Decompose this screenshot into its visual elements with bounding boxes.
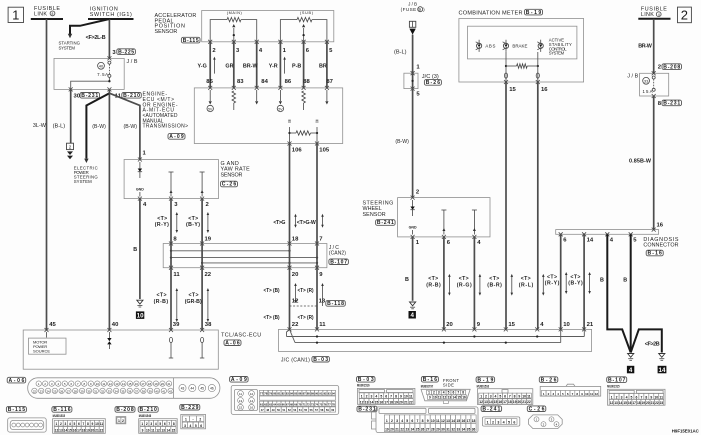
svg-text:MU801515: MU801515 xyxy=(53,414,66,418)
wire B-R meter pin 15 to J/C CAN1 pin 15 xyxy=(505,82,507,329)
wire J/B internal to pin 30 xyxy=(71,77,110,89)
svg-text:14: 14 xyxy=(370,400,374,404)
wire B-W to G and yaw rate sensor pin 1 xyxy=(109,93,139,159)
node pin 5 sensor xyxy=(329,48,333,54)
label wire GR xyxy=(225,63,233,69)
svg-text:61: 61 xyxy=(260,403,264,407)
svg-text:29: 29 xyxy=(81,389,85,393)
node to ELECTRIC POWER STEERING SYSTEM xyxy=(74,159,99,184)
svg-text:13: 13 xyxy=(59,428,63,432)
node pin 22 CAN1 xyxy=(292,322,299,328)
svg-text:SYSTEM: SYSTEM xyxy=(549,51,565,56)
tick CAN2 bottom xyxy=(288,266,292,270)
svg-text:25: 25 xyxy=(416,428,420,432)
connector B-208 label xyxy=(115,407,135,413)
svg-text:23: 23 xyxy=(40,389,44,393)
svg-text:11: 11 xyxy=(102,382,105,386)
connector B-231 pinout xyxy=(376,407,478,433)
wire GR-B CAN2 pin 22 to TCL pin 38 xyxy=(201,268,203,330)
svg-text:41: 41 xyxy=(162,389,166,393)
svg-text:18: 18 xyxy=(637,401,641,405)
svg-text:A-06: A-06 xyxy=(9,378,25,384)
node pin 12 B-118 xyxy=(292,299,299,305)
svg-text:GR: GR xyxy=(225,63,233,69)
ic COMBINATION METER B-19 xyxy=(459,9,543,16)
J/C CAN2 internal bus upper xyxy=(171,250,290,252)
svg-text:12: 12 xyxy=(292,299,299,305)
svg-text:2: 2 xyxy=(485,395,487,399)
svg-text:15: 15 xyxy=(68,428,72,432)
ground steering sensor xyxy=(410,302,416,309)
svg-text:B: B xyxy=(623,278,627,284)
tick J/B33 bottom xyxy=(652,94,656,98)
wire CAN2 through 18-20 xyxy=(289,244,291,268)
svg-text:15: 15 xyxy=(494,400,498,404)
tick J/B exit pin 11 xyxy=(107,87,111,91)
svg-text:27: 27 xyxy=(67,389,71,393)
svg-text:8: 8 xyxy=(462,391,464,395)
svg-text:3: 3 xyxy=(150,422,152,426)
svg-text:22: 22 xyxy=(205,272,212,278)
indicator ACTIVE STABILITY CONTROL SYSTEM lamp xyxy=(537,38,572,56)
tick CAN2 top xyxy=(315,242,319,246)
node pin 105 xyxy=(319,148,330,154)
tick diagnosis entry 16 xyxy=(652,228,656,232)
svg-text:20: 20 xyxy=(446,322,453,328)
tick sensor pin exit xyxy=(302,40,306,44)
svg-text:18: 18 xyxy=(82,428,86,432)
svg-text:38: 38 xyxy=(142,389,146,393)
label J/C (CAN2) B-107 xyxy=(329,245,349,266)
svg-text:6: 6 xyxy=(411,419,413,423)
svg-text:36: 36 xyxy=(472,428,476,432)
svg-text:5: 5 xyxy=(159,422,161,426)
tick CAN1 entry xyxy=(288,327,292,331)
svg-text:10: 10 xyxy=(96,382,100,386)
node pin 84 ECU xyxy=(261,79,268,85)
svg-text:<T>G-W: <T>G-W xyxy=(297,220,316,226)
fuse 40 7.5A xyxy=(108,61,111,64)
svg-text:38: 38 xyxy=(205,322,212,328)
svg-text:15: 15 xyxy=(172,428,176,432)
node pin 2 sensor xyxy=(212,48,216,54)
svg-text:5: 5 xyxy=(406,419,408,423)
arrow twisted meter 15 xyxy=(511,276,513,293)
svg-text:5: 5 xyxy=(499,395,501,399)
svg-text:12: 12 xyxy=(479,400,483,404)
label wire B-Y diag xyxy=(568,274,583,286)
label wire 2B xyxy=(645,341,660,347)
svg-text:24: 24 xyxy=(411,428,415,432)
node pin 10 CAN1 xyxy=(563,322,570,328)
label wire Y-G xyxy=(198,63,207,69)
node pin 16 meter xyxy=(541,87,548,93)
steering wheel sensor box xyxy=(398,198,490,237)
node pin 4 yaw xyxy=(143,202,147,208)
svg-text:(B-Y): (B-Y) xyxy=(568,281,583,287)
svg-text:45: 45 xyxy=(200,387,204,391)
svg-text:<T> (B): <T> (B) xyxy=(264,315,280,321)
svg-text:14: 14 xyxy=(659,367,666,374)
svg-text:11: 11 xyxy=(151,428,155,432)
wire R B-118 pin 13 to J/C CAN1 xyxy=(316,306,318,329)
tick meter exit 16 xyxy=(536,80,540,84)
wire P-B sensor pin 6 to ECU pin 88 xyxy=(303,42,305,88)
ic ENGINE-ECU A-09 xyxy=(143,92,189,140)
svg-text:23: 23 xyxy=(660,401,664,405)
svg-text:43: 43 xyxy=(181,387,185,391)
wire 3L-W fusible link to TCL pin 45 xyxy=(46,19,48,330)
svg-text:12: 12 xyxy=(55,428,59,432)
svg-text:20: 20 xyxy=(292,272,299,278)
connector B-115 pinout xyxy=(8,418,47,432)
TCL internal CAN input 38 xyxy=(201,337,204,342)
tick ECU pin entry xyxy=(232,86,236,90)
svg-text:37: 37 xyxy=(135,389,139,393)
tick steering entry pin2 xyxy=(411,196,415,200)
svg-text:B-26: B-26 xyxy=(541,377,557,383)
svg-text:B-115: B-115 xyxy=(8,407,26,413)
svg-text:1: 1 xyxy=(487,420,489,424)
ECU box A-09 xyxy=(194,88,342,144)
label J/C (CAN1) B-03 xyxy=(281,356,330,363)
node pin 3 sensor xyxy=(236,48,240,54)
svg-text:SWITCH (IG1): SWITCH (IG1) xyxy=(90,12,132,18)
svg-text:14: 14 xyxy=(452,395,456,399)
arrow twisted pair TCL right xyxy=(207,291,209,320)
label wire 2L-B xyxy=(86,35,106,41)
ground yaw sensor xyxy=(137,300,143,307)
node pin 1 yaw sensor xyxy=(143,151,147,157)
label wire 3L-W xyxy=(33,123,47,129)
connector B-116 pinout xyxy=(53,419,106,434)
node page-ref 1 xyxy=(8,7,23,22)
svg-text:33: 33 xyxy=(108,389,112,393)
svg-text:17: 17 xyxy=(384,400,388,404)
node pin 1 sensor xyxy=(283,48,287,54)
svg-text:15A: 15A xyxy=(643,89,653,94)
svg-text:27: 27 xyxy=(426,428,430,432)
label wire B-W (center) xyxy=(92,124,106,130)
wire B-L from J/B pin 30 xyxy=(70,89,72,143)
svg-text:13: 13 xyxy=(115,382,119,386)
node pin 15 CAN1 xyxy=(508,322,515,328)
label wire Y-R xyxy=(269,63,278,69)
connector B-241 label xyxy=(481,406,502,412)
svg-text:3L-W: 3L-W xyxy=(33,123,47,129)
svg-text:45: 45 xyxy=(49,322,56,328)
svg-text:7: 7 xyxy=(390,395,392,399)
svg-text:9: 9 xyxy=(400,395,402,399)
node pin 13 connector B-118 xyxy=(319,299,346,307)
arrow twisted pair right xyxy=(322,216,324,225)
steering internal output 6 xyxy=(443,210,445,235)
svg-text:78: 78 xyxy=(264,392,268,396)
meter internal wires to pins xyxy=(505,52,507,82)
node pin 5 J/C3 xyxy=(416,92,420,98)
tick yaw pin 1 entry xyxy=(138,158,142,162)
svg-text:(R-B): (R-B) xyxy=(154,299,169,305)
svg-text:21: 21 xyxy=(587,322,594,328)
svg-text:15: 15 xyxy=(623,401,627,405)
ground diagnosis 2B xyxy=(659,354,665,361)
steering internal output 4 xyxy=(473,210,475,235)
tick ECU pin entry xyxy=(208,86,212,90)
arrow twisted pair yaw right xyxy=(207,215,209,231)
svg-text:10: 10 xyxy=(522,395,526,399)
tick sensor pin exit xyxy=(232,40,236,44)
svg-text:9: 9 xyxy=(142,428,144,432)
svg-text:CONNECTOR: CONNECTOR xyxy=(643,243,678,249)
svg-text:25: 25 xyxy=(53,389,57,393)
svg-text:BR-W: BR-W xyxy=(243,63,259,69)
svg-text:18: 18 xyxy=(292,236,299,242)
label wire G xyxy=(273,220,285,226)
svg-text:10: 10 xyxy=(563,322,570,328)
svg-text:40: 40 xyxy=(155,389,159,393)
svg-text:46: 46 xyxy=(210,387,214,391)
connector A-06 pinout xyxy=(28,378,220,399)
svg-text:87: 87 xyxy=(326,79,333,85)
wire R-Y yaw pin 3 to J/C CAN2 pin 8 xyxy=(170,199,172,244)
svg-text:(R-L): (R-L) xyxy=(519,283,534,289)
svg-text:26: 26 xyxy=(60,389,64,393)
svg-text:20: 20 xyxy=(161,382,165,386)
tick sensor pin exit xyxy=(208,40,212,44)
node pin 20 CAN1 xyxy=(446,322,453,328)
svg-text:0.85B-W: 0.85B-W xyxy=(629,158,652,164)
node pin 30 connector B-231 xyxy=(74,93,100,100)
svg-text:14: 14 xyxy=(619,401,623,405)
svg-text:11: 11 xyxy=(590,392,594,396)
node pin 2 connector B-208 xyxy=(658,64,682,71)
svg-text:6: 6 xyxy=(78,422,80,426)
svg-text:B: B xyxy=(133,247,137,253)
wire through J/C3 xyxy=(412,73,414,88)
label wire B-W steering xyxy=(395,139,409,145)
svg-text:40: 40 xyxy=(99,64,104,69)
svg-text:12: 12 xyxy=(443,395,447,399)
svg-text:11: 11 xyxy=(319,322,326,328)
svg-text:B-116: B-116 xyxy=(53,407,71,413)
ic TCL/ASC-ECU A-06 box xyxy=(23,330,218,369)
label wire B-L meter xyxy=(394,50,407,56)
svg-text:19: 19 xyxy=(154,382,158,386)
node pin 1 steering xyxy=(416,240,420,246)
svg-text:11: 11 xyxy=(100,422,104,426)
node to STARTING SYSTEM xyxy=(59,34,81,51)
svg-text:B-241: B-241 xyxy=(482,406,500,412)
wire Y-R sensor pin 1 to ECU pin 86 xyxy=(279,42,281,88)
svg-text:13: 13 xyxy=(614,401,618,405)
svg-text:J/C (CAN1): J/C (CAN1) xyxy=(281,357,310,363)
svg-text:16: 16 xyxy=(462,395,466,399)
combination meter inner box xyxy=(468,26,577,59)
svg-text:13: 13 xyxy=(484,400,488,404)
ground diagnosis main xyxy=(628,354,634,361)
svg-text:5: 5 xyxy=(380,395,382,399)
svg-text:(R-B): (R-B) xyxy=(426,283,441,289)
svg-text:3: 3 xyxy=(490,395,492,399)
arrow twisted steering 4 xyxy=(479,276,481,293)
svg-text:MU802797: MU802797 xyxy=(421,385,434,389)
label wire B diag4 xyxy=(600,278,604,284)
svg-text:14: 14 xyxy=(64,428,68,432)
svg-text:5: 5 xyxy=(195,424,197,428)
svg-text:17: 17 xyxy=(503,400,507,404)
connector B-229 pinout xyxy=(181,414,206,428)
tick yaw pin exit xyxy=(138,197,142,201)
svg-text:<T> (R): <T> (R) xyxy=(298,288,314,294)
tick CAN2 top xyxy=(169,242,173,246)
connector B-19 label xyxy=(476,377,495,383)
svg-text:B-241: B-241 xyxy=(377,220,394,226)
junction block J/B fuse 33 xyxy=(640,73,669,96)
svg-text:(R-Y): (R-Y) xyxy=(545,281,560,287)
svg-text:B-210: B-210 xyxy=(123,93,140,99)
svg-text:6: 6 xyxy=(200,424,202,428)
tick CAN1 entry xyxy=(442,327,446,331)
node pin 45 TCL xyxy=(49,322,56,328)
svg-text:B-118: B-118 xyxy=(327,301,344,307)
svg-text:22: 22 xyxy=(527,400,531,404)
svg-text:LINK: LINK xyxy=(34,11,47,17)
svg-text:SYSTEM: SYSTEM xyxy=(74,179,92,184)
svg-text:12: 12 xyxy=(610,401,614,405)
svg-text:11: 11 xyxy=(436,419,440,423)
svg-text:2: 2 xyxy=(122,419,124,423)
svg-text:19: 19 xyxy=(394,400,398,404)
svg-text:4: 4 xyxy=(189,424,191,428)
svg-text:B-210: B-210 xyxy=(140,407,158,413)
svg-text:COMBINATION METER: COMBINATION METER xyxy=(459,10,523,16)
wire B diagnosis pin 4 to ground xyxy=(607,234,630,352)
svg-text:B: B xyxy=(600,278,604,284)
svg-text:1: 1 xyxy=(118,419,120,423)
tick CAN1 entry xyxy=(582,327,586,331)
svg-text:9: 9 xyxy=(518,395,520,399)
ECU internal 5V supply left xyxy=(209,90,211,101)
node pin 40 TCL xyxy=(112,322,119,328)
arrow twisted pair left xyxy=(295,216,297,225)
label wire R lower xyxy=(298,315,314,321)
connector B-231 label xyxy=(357,406,377,412)
wire R-B CAN2 pin 11 to TCL pin 39 xyxy=(170,268,172,330)
arrow signal direction pin2 xyxy=(213,59,215,74)
svg-text:B-208: B-208 xyxy=(116,407,134,413)
svg-text:16: 16 xyxy=(628,401,632,405)
svg-text:42: 42 xyxy=(169,389,173,393)
arrow twisted meter 16 xyxy=(542,276,544,293)
tick sensor pin exit xyxy=(255,40,259,44)
svg-text:MU801516: MU801516 xyxy=(477,385,490,389)
svg-text:8: 8 xyxy=(395,395,397,399)
svg-text:(B-L): (B-L) xyxy=(394,50,407,56)
svg-text:15: 15 xyxy=(239,406,243,410)
node pin 21 CAN1 xyxy=(587,322,594,328)
svg-text:15: 15 xyxy=(456,419,460,423)
svg-text:9: 9 xyxy=(92,422,94,426)
svg-text:1: 1 xyxy=(361,395,363,399)
svg-text:4: 4 xyxy=(155,422,157,426)
svg-text:22: 22 xyxy=(655,401,659,405)
svg-text:B-225: B-225 xyxy=(118,49,134,55)
svg-text:B-16: B-16 xyxy=(648,251,663,257)
wire B-L J/B fuse9 to J/C(3) xyxy=(412,35,414,74)
node pin 8 CAN2 xyxy=(173,236,177,242)
svg-text:10: 10 xyxy=(433,395,437,399)
svg-text:21: 21 xyxy=(167,382,171,386)
wire CAN2 through 19-22 xyxy=(201,244,203,268)
label wire B steering xyxy=(405,277,409,283)
power source FUSIBLE LINK 4 xyxy=(638,7,670,19)
svg-text:7.5A: 7.5A xyxy=(97,72,108,77)
svg-text:16: 16 xyxy=(135,382,139,386)
tick meter exit 15 xyxy=(504,80,508,84)
node pin 11 connector B-210 xyxy=(115,93,142,100)
svg-text:B-19: B-19 xyxy=(526,10,542,16)
TCL internal CAN input 39 xyxy=(169,337,172,342)
label wire R-G steering xyxy=(457,276,472,288)
node pin 85 ECU xyxy=(206,79,213,85)
svg-text:15: 15 xyxy=(457,395,461,399)
label J/B right xyxy=(627,73,638,79)
label wire R-Y diag xyxy=(545,274,560,286)
svg-text:BR-W: BR-W xyxy=(638,44,652,50)
label wire R upper xyxy=(298,288,314,294)
svg-text:19: 19 xyxy=(641,401,645,405)
node ground ref 10 xyxy=(136,311,144,319)
svg-text:24: 24 xyxy=(46,389,50,393)
svg-text:<T>G: <T>G xyxy=(273,220,285,226)
svg-text:B-231: B-231 xyxy=(81,93,98,99)
node pin 16 diagnosis xyxy=(657,222,664,228)
node page-ref 2 xyxy=(678,7,692,23)
svg-text:<F>2B: <F>2B xyxy=(645,341,660,347)
node pin 86 ECU xyxy=(285,79,292,85)
power source FUSIBLE LINK (left) xyxy=(31,6,63,19)
svg-text:19: 19 xyxy=(385,428,389,432)
svg-text:-: - xyxy=(193,418,194,422)
wire 0.85B-W J/B33 to diagnosis pin 16 xyxy=(653,96,655,230)
svg-text:6: 6 xyxy=(636,395,638,399)
svg-text:19: 19 xyxy=(86,428,90,432)
tick ECU pin entry xyxy=(325,86,329,90)
svg-text:5V: 5V xyxy=(208,107,213,111)
svg-text:(B-W): (B-W) xyxy=(395,139,409,145)
tick CAN1 entry xyxy=(315,327,319,331)
node pin 39 TCL xyxy=(173,322,180,328)
svg-text:2: 2 xyxy=(69,145,72,150)
junction connector J/C (CAN1) box xyxy=(279,329,592,351)
tick CAN1 entry xyxy=(472,327,476,331)
svg-text:36: 36 xyxy=(128,389,132,393)
svg-text:21: 21 xyxy=(95,428,99,432)
svg-text:84: 84 xyxy=(261,79,268,85)
label DIAGNOSIS CONNECTOR B-16 xyxy=(643,237,678,256)
svg-text:2: 2 xyxy=(492,420,494,424)
svg-text:17: 17 xyxy=(77,428,81,432)
node pin 4 sensor xyxy=(259,48,263,54)
wire B steering pin 1 to ground xyxy=(412,237,414,301)
ECU internal resistor pin83 xyxy=(232,91,236,103)
svg-text:18: 18 xyxy=(472,419,476,423)
wire ignition switch to J/B fuse 40 xyxy=(108,19,110,58)
tick yaw pin exit xyxy=(169,197,173,201)
node pin 3 yaw xyxy=(174,202,178,208)
svg-text:<T>: <T> xyxy=(459,276,469,282)
svg-text:22: 22 xyxy=(409,400,413,404)
